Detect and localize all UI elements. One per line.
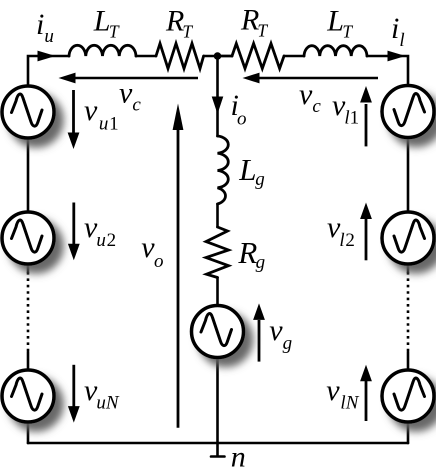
svg-text:RT: RT bbox=[240, 3, 268, 40]
arrow vuN (points down) bbox=[68, 365, 80, 423]
wire node A to RT2 bbox=[218, 55, 233, 58]
source Vl1 sine bbox=[394, 94, 425, 126]
arrow current il on top-right rail bbox=[388, 51, 406, 62]
source Vu2 circle bbox=[2, 212, 54, 264]
svg-text:Rg: Rg bbox=[237, 235, 265, 273]
source VuN sine bbox=[12, 378, 43, 410]
wire right rail below VlN to bottom bbox=[407, 422, 410, 444]
node A junction dot bbox=[214, 52, 222, 60]
wire right rail above VlN bbox=[407, 352, 410, 370]
arrow vlN (points up) bbox=[360, 365, 372, 421]
svg-text:vuN: vuN bbox=[84, 374, 120, 414]
svg-text:vl1: vl1 bbox=[332, 89, 359, 129]
wire right rail dotted continuation bbox=[407, 272, 410, 352]
arrow vo (long, points up) bbox=[173, 104, 184, 428]
source Vl2 sine bbox=[394, 220, 425, 252]
wire left rail dotted continuation bbox=[27, 272, 30, 352]
wire right rail stub below Vl2 bbox=[407, 264, 410, 273]
source Vg sine bbox=[201, 314, 232, 346]
arrow vc right (points left) bbox=[243, 73, 379, 84]
source Vl1 circle bbox=[382, 86, 434, 138]
wire top-right rail bbox=[367, 56, 408, 86]
wire left rail stub below Vu2 bbox=[27, 264, 30, 273]
source VuN circle bbox=[2, 370, 54, 422]
resistor Rg bbox=[206, 227, 229, 278]
wire between LT1 and RT1 bbox=[136, 55, 156, 58]
resistor RT1 bbox=[156, 44, 204, 69]
arrow current iu on top-left rail bbox=[38, 51, 56, 62]
svg-text:Lg: Lg bbox=[238, 152, 265, 190]
wire RT2 to LT2 bbox=[284, 55, 304, 58]
inductor LT2 bbox=[304, 46, 367, 56]
resistor RT2 bbox=[232, 44, 284, 69]
inductor LT1 bbox=[69, 45, 136, 56]
svg-text:il: il bbox=[391, 12, 405, 51]
wire RT1 to node A bbox=[204, 55, 232, 58]
svg-text:vu2: vu2 bbox=[84, 211, 116, 251]
arrow vl1 (points up) bbox=[360, 86, 372, 146]
wire top-left rail bbox=[28, 56, 69, 87]
arrow current io (points down, on center wire) bbox=[212, 97, 224, 115]
wire left rail above VuN bbox=[27, 352, 30, 370]
arrow vc left (points left) bbox=[59, 73, 199, 84]
svg-text:vu1: vu1 bbox=[84, 94, 119, 135]
wire center node A down to Lg bbox=[216, 56, 219, 136]
svg-text:vlN: vlN bbox=[326, 374, 359, 414]
svg-text:vc: vc bbox=[299, 78, 321, 117]
svg-text:vc: vc bbox=[119, 77, 141, 116]
wire Rg to source Vg bbox=[216, 278, 219, 307]
arrow vu2 (points down) bbox=[68, 203, 80, 261]
wire source Vg to bottom rail bbox=[216, 358, 219, 444]
inductor Lg bbox=[218, 136, 229, 204]
svg-text:vg: vg bbox=[269, 314, 292, 354]
wire Lg to Rg bbox=[216, 204, 219, 227]
svg-text:n: n bbox=[231, 441, 246, 474]
wire bottom rail bbox=[28, 442, 408, 445]
arrow vg (points up) bbox=[253, 303, 265, 361]
svg-text:iu: iu bbox=[36, 8, 54, 47]
source VlN sine bbox=[394, 378, 425, 410]
source VlN circle bbox=[382, 370, 434, 422]
wire left rail between Vu1 and Vu2 bbox=[27, 138, 30, 213]
arrow vl2 (points up) bbox=[360, 203, 372, 261]
svg-text:io: io bbox=[231, 89, 247, 130]
svg-text:LT: LT bbox=[326, 5, 353, 42]
svg-text:LT: LT bbox=[93, 5, 120, 42]
source Vu2 sine bbox=[12, 220, 43, 252]
svg-text:vo: vo bbox=[141, 231, 163, 272]
arrow vu1 (points down) bbox=[68, 90, 80, 149]
node n terminal tick bbox=[211, 443, 225, 457]
svg-text:RT: RT bbox=[165, 4, 193, 41]
source Vg circle bbox=[192, 306, 244, 358]
wire left rail below VuN to bottom bbox=[27, 422, 30, 444]
source Vu1 circle bbox=[2, 86, 54, 138]
source Vu1 sine bbox=[12, 94, 43, 126]
svg-text:vl2: vl2 bbox=[327, 211, 355, 251]
wire right rail between Vl1 and Vl2 bbox=[407, 138, 410, 213]
source Vl2 circle bbox=[382, 212, 434, 264]
